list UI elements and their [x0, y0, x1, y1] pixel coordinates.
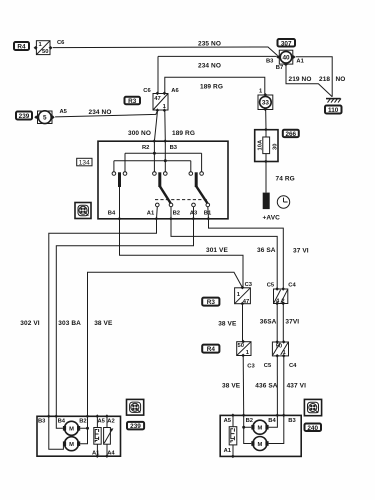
- motor M1 left box: [63, 421, 80, 435]
- wire bar to B4 pin: [119, 187, 121, 219]
- pin C4 top: [281, 287, 285, 291]
- motor M1 right box: [251, 420, 268, 434]
- svg-text:50: 50: [276, 344, 282, 350]
- switch lever middle to B2: [160, 186, 171, 203]
- svg-text:A5: A5: [60, 109, 68, 115]
- wire 234 NO horizontal to unit 40 pin B3: [158, 55, 277, 57]
- svg-text:234 NO: 234 NO: [198, 62, 221, 69]
- svg-text:1: 1: [39, 42, 43, 48]
- svg-text:R2: R2: [142, 145, 149, 151]
- svg-text:437 VI: 437 VI: [287, 382, 306, 389]
- pin B4 right box: [275, 414, 279, 418]
- label R3 mid: [202, 298, 219, 307]
- junction dot B3: [164, 159, 167, 162]
- svg-text:B7: B7: [276, 65, 283, 71]
- svg-text:38 VE: 38 VE: [218, 321, 237, 328]
- label 239: [16, 112, 32, 121]
- clock symbol: [277, 196, 289, 208]
- wire 36SA between connectors: [276, 304, 278, 343]
- svg-text:37 VI: 37 VI: [293, 248, 309, 255]
- pin C4 lower bottom: [282, 354, 286, 358]
- svg-text:B3: B3: [170, 145, 178, 151]
- connector C3 upper: [235, 288, 251, 305]
- pin C5 lower top: [275, 340, 279, 344]
- svg-text:301 VE: 301 VE: [206, 247, 228, 254]
- switch box 134: [98, 141, 228, 219]
- svg-text:240: 240: [307, 425, 318, 432]
- svg-text:302 VI: 302 VI: [20, 320, 39, 327]
- svg-text:B1: B1: [204, 210, 212, 216]
- svg-text:B3: B3: [288, 418, 296, 424]
- wire 37VI between connectors: [282, 304, 284, 343]
- svg-text:47: 47: [154, 96, 160, 102]
- svg-text:50: 50: [42, 49, 48, 55]
- svg-text:C5: C5: [267, 283, 275, 289]
- label 240: [305, 424, 322, 432]
- pin A1 of 134: [155, 217, 159, 221]
- moving contact bar middle: [158, 172, 161, 187]
- svg-text:M: M: [69, 427, 74, 433]
- svg-text:C4: C4: [288, 283, 296, 289]
- pin B2 left box: [86, 414, 90, 418]
- pin A3 of 134: [192, 217, 196, 221]
- svg-text:303 BA: 303 BA: [58, 320, 81, 327]
- icon window-lifter near 134: [75, 203, 91, 219]
- svg-text:B3: B3: [266, 59, 274, 65]
- battery feed +AVC: [263, 193, 270, 210]
- icon window-lifter right: [304, 399, 321, 415]
- svg-text:436 SA: 436 SA: [255, 382, 277, 389]
- svg-text:189 RG: 189 RG: [172, 130, 195, 137]
- pin A1 left box bottom: [95, 454, 99, 458]
- switch unit 5 (component 239): [38, 111, 53, 124]
- pin C6 top-left of R3: [156, 92, 160, 96]
- fuse box 266: [255, 130, 278, 162]
- svg-text:239: 239: [19, 113, 30, 120]
- svg-text:5: 5: [43, 115, 47, 122]
- motor M2 right box: [251, 437, 268, 451]
- svg-text:74 RG: 74 RG: [276, 176, 295, 183]
- svg-text:B3: B3: [38, 419, 46, 425]
- svg-text:189 RG: 189 RG: [200, 84, 223, 91]
- label 110: [325, 106, 342, 115]
- svg-text:30: 30: [272, 144, 278, 150]
- label 266: [283, 130, 299, 138]
- svg-text:239: 239: [130, 423, 141, 430]
- wire 38 VE branch to left box B2: [88, 272, 243, 416]
- svg-text:M: M: [69, 442, 74, 448]
- label R4: [14, 42, 29, 51]
- relay unit 40: [279, 50, 293, 64]
- wire A5 to breaker to A1: [96, 416, 98, 456]
- svg-text:A1: A1: [224, 448, 232, 454]
- contact circles bottom row: [156, 203, 210, 207]
- junction dot B2 left box: [86, 427, 89, 430]
- pin C5 top: [275, 287, 279, 291]
- pin B1 of 134: [207, 217, 211, 221]
- wire 301 VE from B4 to connector C3: [120, 219, 244, 288]
- pin B4 of 134: [118, 217, 122, 221]
- pin C4 bottom: [281, 302, 285, 306]
- pin B3 of 134: [163, 139, 167, 143]
- pin A2 left box: [105, 414, 109, 418]
- label 307: [278, 39, 296, 47]
- wire 302 VI from A1 to left box B3: [49, 219, 157, 416]
- svg-text:R4: R4: [207, 346, 216, 353]
- svg-text:C3: C3: [247, 364, 255, 370]
- moving contact bar right: [195, 172, 198, 187]
- svg-text:C4: C4: [289, 363, 297, 369]
- svg-text:A1: A1: [296, 59, 304, 65]
- wire 37 VI from B1 to connector C4: [209, 219, 284, 289]
- pin B2 right box: [242, 414, 246, 418]
- thermal breaker right box: [229, 427, 237, 445]
- svg-text:R3: R3: [128, 98, 137, 105]
- ground MH: [326, 99, 341, 103]
- pin A1 right box bottom: [231, 455, 235, 459]
- pin B7 of unit 40: [284, 63, 288, 67]
- pin bottom-right of R3: [163, 108, 167, 112]
- svg-text:38 VE: 38 VE: [94, 320, 113, 327]
- connector C5/C4 lower: [272, 342, 288, 356]
- svg-text:110: 110: [328, 107, 339, 114]
- svg-text:A2: A2: [107, 419, 114, 425]
- wire 218 NO from A1 to ground: [296, 57, 332, 97]
- stubs bottom contacts to pins: [157, 207, 209, 219]
- svg-text:A1: A1: [147, 210, 155, 216]
- pin A6 top-right of R3: [163, 92, 167, 96]
- wire 74 RG: [265, 162, 267, 193]
- pin B3 right box: [282, 414, 286, 418]
- wire B3 to M2: [49, 416, 64, 449]
- mechanical link dashed: [155, 199, 209, 201]
- unit 33: [258, 95, 273, 110]
- svg-text:50: 50: [238, 343, 244, 349]
- rheostat left box: [104, 428, 114, 445]
- svg-text:A1: A1: [92, 450, 100, 456]
- motor unit box left (window lifter): [37, 416, 121, 456]
- svg-text:B2: B2: [246, 418, 253, 424]
- svg-text:C6: C6: [57, 40, 65, 46]
- wire B4 to M1 right: [269, 415, 278, 427]
- svg-text:38 VE: 38 VE: [222, 383, 241, 390]
- pin bottom of unit 33: [263, 108, 267, 112]
- svg-text:235 NO: 235 NO: [198, 40, 221, 47]
- pin C5 lower bottom: [275, 354, 279, 358]
- pin top of C3 lower: [241, 340, 245, 344]
- svg-text:266: 266: [285, 131, 296, 138]
- svg-text:M: M: [257, 442, 262, 448]
- svg-text:B2: B2: [173, 210, 180, 216]
- pin R2 of 134: [152, 139, 156, 143]
- pin C5 bottom: [275, 302, 279, 306]
- pin B4 left box: [54, 414, 58, 418]
- svg-text:A5: A5: [224, 418, 232, 424]
- wire 300 NO from R3 to box 134 pin R2: [154, 111, 157, 141]
- svg-text:1: 1: [237, 292, 241, 298]
- label R3: [125, 97, 141, 105]
- svg-text:C6: C6: [143, 88, 151, 94]
- icon window-lifter left: [127, 399, 144, 415]
- wire 436 SA to right box B4: [276, 356, 278, 416]
- wire 189 RG from R3 to box 134 pin B3: [164, 111, 167, 141]
- wire 189 RG from A6 to unit 33: [165, 77, 265, 94]
- pin B3 left box: [47, 414, 51, 418]
- wire 437 VI to right box B3: [283, 356, 285, 416]
- pin right of fuse 50: [49, 46, 53, 50]
- wire B2 to motor commons: [80, 416, 87, 443]
- svg-text:R3: R3: [207, 299, 216, 306]
- pin top of C3 upper: [241, 286, 245, 290]
- wire C6 vertical to connector R3: [157, 56, 159, 92]
- moving contact bar left: [118, 172, 121, 187]
- svg-text:B4: B4: [58, 419, 66, 425]
- wire 38 VE between C3 connectors: [242, 304, 244, 342]
- wire 38 VE to right box B2: [242, 356, 245, 416]
- label R4 lower: [202, 345, 219, 354]
- contact circles top row: [112, 172, 203, 176]
- wire A2 to rheostat to A4: [106, 416, 108, 456]
- svg-text:219 NO: 219 NO: [289, 76, 312, 83]
- svg-text:40: 40: [282, 55, 290, 62]
- svg-text:134: 134: [79, 159, 90, 166]
- wire B3 distribution: [114, 141, 191, 172]
- label 239 lower: [127, 422, 144, 430]
- wire 234 NO from unit 5 to connector R3: [55, 111, 157, 117]
- pin B2 of 134: [169, 217, 173, 221]
- wire A5 to breaker to A1: [232, 415, 234, 456]
- pin left of fuse 50: [34, 46, 38, 50]
- pin top of unit 33: [263, 93, 267, 97]
- svg-text:B4: B4: [268, 418, 276, 424]
- svg-text:M: M: [257, 426, 262, 432]
- pin bottom of C3 lower: [241, 354, 245, 358]
- svg-text:36SA: 36SA: [260, 318, 277, 325]
- pin C4 lower top: [282, 340, 286, 344]
- pin B3 of unit 40: [276, 55, 280, 59]
- pin left of unit 5: [34, 115, 38, 119]
- pin bottom of fuse 266: [264, 160, 268, 164]
- svg-text:A5: A5: [98, 419, 106, 425]
- pin A5 left box: [95, 414, 99, 418]
- wire unit 33 to fuse box 266: [265, 111, 267, 130]
- svg-text:10A: 10A: [258, 139, 264, 150]
- svg-text:A3: A3: [190, 210, 198, 216]
- wire 303 BA from A3 to left box B4: [56, 219, 193, 416]
- svg-text:33: 33: [262, 100, 270, 107]
- pin A5 right box: [231, 414, 235, 418]
- svg-text:37VI: 37VI: [285, 318, 299, 325]
- motor unit box right (window lifter): [220, 415, 301, 456]
- svg-text:B4: B4: [108, 210, 116, 216]
- svg-text:C5: C5: [264, 363, 272, 369]
- svg-text:B2: B2: [79, 419, 86, 425]
- svg-text:218: 218: [319, 76, 330, 83]
- pin A5 of unit 5: [51, 115, 55, 119]
- svg-text:+AVC: +AVC: [263, 214, 281, 221]
- wire B2 to motor commons right: [244, 415, 252, 443]
- pin A4 left box bottom: [105, 454, 109, 458]
- connector C3 lower: [237, 342, 251, 356]
- svg-text:300 NO: 300 NO: [128, 130, 151, 137]
- fuse 50: [36, 41, 50, 56]
- pin bottom-left of R3: [156, 108, 160, 112]
- wire 36 SA from B2 to connector C5: [171, 219, 277, 289]
- wire B4 to M1: [56, 416, 63, 428]
- svg-text:234 NO: 234 NO: [89, 109, 112, 116]
- svg-text:A6: A6: [171, 88, 179, 94]
- svg-text:R4: R4: [17, 44, 26, 51]
- wire 235 NO from fuse to unit 40 pin B3: [53, 47, 278, 56]
- connector R3 (C6/A6): [153, 94, 168, 111]
- pin bottom of C3 upper: [241, 302, 245, 306]
- junction dot R2: [153, 152, 156, 155]
- pin top of fuse 266: [264, 128, 268, 132]
- wire R2 distribution: [125, 141, 202, 172]
- thermal breaker left box: [94, 428, 101, 445]
- pin A1 of unit 40: [292, 55, 296, 59]
- svg-text:A4: A4: [107, 450, 115, 456]
- connector C5/C4 upper: [274, 289, 288, 304]
- svg-text:36 SA: 36 SA: [257, 247, 276, 254]
- label 134: [77, 158, 92, 166]
- svg-text:307: 307: [281, 40, 292, 47]
- svg-text:47: 47: [243, 299, 249, 305]
- switch lever right to B1: [196, 186, 207, 203]
- svg-text:1: 1: [259, 89, 263, 95]
- junction dot B2 right box: [242, 426, 245, 429]
- wire 219 NO from B7 to ground: [286, 66, 332, 97]
- motor M2 left box: [63, 437, 80, 451]
- wire B3 to M2 right: [269, 415, 284, 443]
- svg-text:NO: NO: [336, 76, 346, 83]
